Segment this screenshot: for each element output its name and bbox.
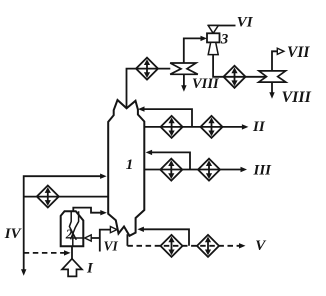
ejector 3 diffuser — [208, 42, 218, 54]
wire side draw II from column through D2 D3 — [144, 126, 243, 128]
condenser VIII (right bowtie vessel) — [259, 71, 286, 82]
wire IV riser and return into column — [24, 176, 101, 272]
wire ejector suction from condenser top — [184, 38, 202, 63]
svg-text:1: 1 — [126, 157, 134, 173]
stream I hollow arrow — [62, 259, 82, 277]
svg-text:IV: IV — [4, 226, 23, 242]
wire side draw III from column through D4 D5 — [144, 169, 241, 171]
ejector 3 nozzle — [208, 26, 218, 34]
wire condensate out down — [183, 74, 185, 86]
wire column bottoms outlet to dashed V row — [126, 234, 128, 246]
open arrow VI steam into furnace — [85, 235, 92, 241]
wire VI steam line to ejector — [208, 25, 236, 27]
svg-text:II: II — [252, 119, 266, 135]
svg-text:VIII: VIII — [282, 89, 312, 106]
heat exchanger D3 — [201, 116, 223, 138]
wire gas line VII — [272, 51, 278, 71]
arrow IV down — [21, 269, 26, 276]
column K-1 body — [108, 100, 144, 236]
arrow VIII down — [181, 85, 186, 92]
open arrow VI steam into column bottom — [110, 227, 117, 233]
ejector 3 body — [207, 33, 220, 42]
condenser VIII (left bowtie vessel) — [170, 63, 198, 74]
heat exchanger D5 — [198, 159, 220, 181]
furnace 2 coil — [69, 211, 76, 240]
wire overhead vapor line column top to D1 to VIII condenser — [127, 69, 171, 109]
wire circulating draw to D9 and product IV — [24, 196, 109, 198]
svg-text:VI: VI — [104, 238, 119, 253]
wire VI steam header — [91, 230, 110, 252]
heat exchanger D8 — [197, 235, 219, 257]
svg-text:III: III — [253, 162, 273, 178]
wire hot return into column bottom — [142, 229, 189, 246]
svg-text:VIII: VIII — [192, 76, 220, 92]
heat exchanger D4 — [160, 159, 182, 181]
open arrow VII — [277, 48, 284, 54]
arrow VIII down right — [269, 92, 274, 99]
svg-text:2: 2 — [65, 226, 73, 241]
heat exchanger D9 — [37, 186, 59, 208]
svg-text:VI: VI — [237, 15, 254, 31]
heat exchanger D1 — [136, 58, 158, 80]
svg-text:VII: VII — [287, 44, 310, 61]
wire reflux return into column top — [143, 109, 192, 127]
furnace 2 body — [61, 211, 84, 246]
wire ejector discharge to D6 to VIII condenser right — [213, 55, 266, 77]
wire transfer line furnace to column — [73, 208, 101, 213]
stream I feed line — [71, 246, 73, 259]
svg-text:I: I — [86, 261, 94, 277]
heat exchanger D7 — [161, 235, 183, 257]
wire condensate out down right — [271, 82, 273, 93]
wire dashed recycle to furnace feed — [24, 252, 65, 254]
heat exchanger D2 — [161, 116, 183, 138]
svg-text:3: 3 — [220, 32, 228, 48]
heat exchanger D6 — [224, 66, 246, 88]
wire reflux return into column row III — [150, 152, 190, 169]
